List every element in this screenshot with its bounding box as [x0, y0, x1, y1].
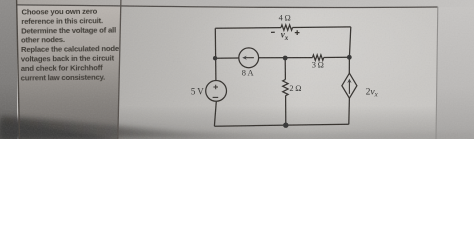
right cell background	[436, 7, 474, 139]
junction node dot left middle	[213, 56, 217, 60]
wire: right vertical upper segment	[349, 27, 351, 73]
voltage source V 5V circle	[206, 81, 227, 102]
left text cell background	[17, 5, 121, 139]
resistor R 3ohm zigzag	[313, 55, 324, 60]
wire: top left corner to 4ohm resistor	[215, 27, 281, 30]
dependent source diamond 2vx	[342, 73, 357, 98]
table left border line	[17, 0, 20, 139]
page base	[0, 0, 474, 139]
resistor R 4ohm zigzag	[281, 25, 293, 30]
junction node dot bottom	[283, 123, 288, 128]
label plus of vx	[295, 30, 300, 35]
circuit cell background	[118, 6, 438, 140]
resistor R 2ohm vertical zigzag	[283, 80, 288, 96]
wire: 8A source to middle junction	[259, 57, 313, 59]
wire: 2ohm branch upper	[284, 58, 286, 80]
subtle page highlight vignette	[170, 0, 450, 108]
left dark photo edge	[0, 0, 17, 139]
dark bottom-left corner shadow	[0, 122, 115, 139]
plus sign inside 5V source	[213, 85, 218, 90]
minus sign inside 5V source	[213, 96, 219, 98]
table top border line	[17, 5, 438, 8]
circuit	[191, 13, 379, 128]
problem statement text	[20, 6, 120, 82]
arrow inside 8A source pointing left	[245, 57, 254, 59]
wire: right vertical lower segment	[348, 98, 351, 124]
wire: left vertical below 5V source	[214, 101, 216, 126]
table column divider line	[118, 0, 121, 139]
wire: left vertical above 5V source	[214, 28, 217, 80]
current source I 8A circle	[239, 48, 259, 68]
arrow inside diamond pointing up	[348, 81, 350, 94]
junction node dot center middle	[283, 56, 288, 61]
label minus of vx	[271, 31, 275, 33]
junction node dot right middle	[347, 55, 352, 60]
wire: middle from left wire to 8A source	[215, 57, 239, 59]
photo grain overlay	[0, 0, 474, 139]
wire: bottom	[214, 124, 348, 126]
wire: 3ohm to right middle junction	[324, 56, 350, 58]
wire: 4ohm to top right corner	[293, 26, 351, 29]
bottom shadow band across page	[0, 116, 474, 139]
top strip above table line	[0, 0, 474, 9]
table right border line	[436, 7, 438, 139]
wire: 2ohm branch lower	[285, 96, 287, 125]
circuit cell bottom darkening	[118, 6, 438, 140]
